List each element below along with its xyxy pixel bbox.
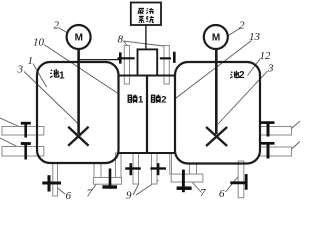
svg-text:10: 10 bbox=[33, 37, 45, 49]
svg-text:3: 3 bbox=[17, 64, 24, 76]
svg-text:3: 3 bbox=[267, 63, 274, 75]
svg-text:2: 2 bbox=[239, 20, 245, 32]
svg-text:M: M bbox=[75, 33, 83, 44]
svg-text:M: M bbox=[212, 33, 220, 44]
svg-text:9: 9 bbox=[126, 190, 132, 201]
svg-text:2: 2 bbox=[239, 70, 245, 81]
svg-text:2: 2 bbox=[161, 95, 166, 106]
svg-text:6: 6 bbox=[219, 188, 225, 200]
svg-text:8: 8 bbox=[118, 34, 124, 46]
svg-text:7: 7 bbox=[87, 188, 93, 200]
svg-text:1: 1 bbox=[59, 70, 65, 81]
svg-text:1: 1 bbox=[138, 95, 144, 106]
svg-text:7: 7 bbox=[200, 187, 206, 199]
svg-text:13: 13 bbox=[249, 31, 261, 43]
svg-text:12: 12 bbox=[260, 50, 272, 62]
svg-text:2: 2 bbox=[54, 20, 60, 32]
svg-text:1: 1 bbox=[28, 55, 34, 67]
svg-text:6: 6 bbox=[66, 190, 72, 200]
